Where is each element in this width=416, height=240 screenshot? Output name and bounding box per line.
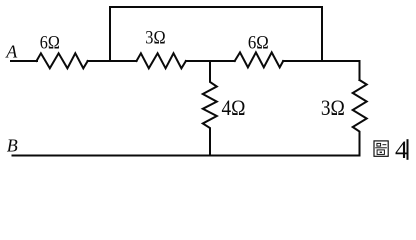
- svg-text:4Ω: 4Ω: [222, 95, 246, 120]
- wire top rail with risers: [110, 7, 322, 61]
- wire R1 to R2: [88, 60, 137, 62]
- svg-text:6Ω: 6Ω: [248, 32, 269, 53]
- resistor R2 3ohm zigzag: [137, 53, 186, 68]
- svg-text:A: A: [5, 42, 18, 62]
- svg-text:6Ω: 6Ω: [40, 32, 60, 53]
- resistor R1 6ohm zigzag: [37, 53, 88, 68]
- resistor R5 3ohm vertical zigzag: [353, 80, 367, 156]
- svg-text:4: 4: [395, 135, 408, 164]
- wire R3 to right corner: [283, 61, 359, 80]
- resistor R3 6ohm zigzag: [235, 52, 284, 67]
- svg-text:B: B: [7, 136, 18, 156]
- wire R2 to R3: [186, 60, 235, 62]
- wire A lead: [11, 60, 37, 62]
- resistor R4 4ohm vertical zigzag: [203, 61, 217, 156]
- svg-text:3Ω: 3Ω: [321, 95, 345, 120]
- wire bottom rail: [13, 155, 360, 157]
- svg-text:3Ω: 3Ω: [145, 28, 165, 49]
- caption edge bar: [407, 140, 409, 159]
- caption figure glyph (CJK tu) drawn as strokes: [374, 141, 388, 156]
